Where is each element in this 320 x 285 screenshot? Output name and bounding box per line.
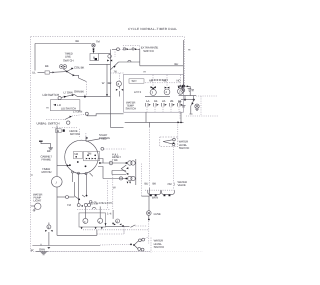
- spin solenoid: [98, 207, 103, 224]
- dashed linkage y209: [77, 207, 110, 209]
- svg-text:CYCLE NORMAL–TIMER DUAL: CYCLE NORMAL–TIMER DUAL: [128, 27, 177, 31]
- motor top diagonal: [86, 137, 107, 142]
- unbalance contact: [85, 112, 123, 116]
- wire lid to riser: [75, 95, 111, 97]
- cabinet frame (dashed): [31, 37, 185, 252]
- dashed drops below leads: [108, 175, 113, 210]
- linkage dashed: [145, 82, 181, 84]
- label EXTRA RINSE SWITCH: [141, 46, 159, 53]
- label TIMER MOTOR: [42, 167, 52, 174]
- pre-row labels: [91, 201, 112, 206]
- label block mid: [112, 152, 121, 162]
- svg-text:LT GRN: LT GRN: [73, 110, 82, 114]
- switch blade outside: [190, 100, 194, 114]
- connector jog: [112, 165, 128, 175]
- contact T2 circle: [108, 54, 112, 59]
- dashed col left: [179, 111, 181, 120]
- pre-row symbols: [77, 203, 90, 206]
- svg-text:GRN: GRN: [39, 248, 45, 252]
- svg-text:T BK: T BK: [112, 158, 118, 162]
- svg-text:W: W: [31, 248, 34, 252]
- left arm arrow: [178, 85, 182, 87]
- svg-text:BU: BU: [175, 62, 179, 66]
- extra rinse switch row: [112, 48, 140, 51]
- diagonal riser with arrow: [111, 62, 119, 70]
- junction dot lid wire: [84, 96, 86, 98]
- svg-text:LIGHT: LIGHT: [34, 199, 42, 203]
- fuse F1: [147, 211, 161, 217]
- junction dot right: [181, 84, 185, 88]
- contact arrows T2: [107, 60, 112, 62]
- svg-text:SWITCH: SWITCH: [143, 49, 154, 53]
- water temp switch box: [124, 74, 184, 112]
- svg-text:3A: 3A: [178, 99, 181, 103]
- dotted line to edge top: [196, 95, 218, 97]
- water valve coil 1: [148, 190, 161, 196]
- svg-text:2 OR 4 CYC: 2 OR 4 CYC: [99, 201, 113, 205]
- label DRIVE MOTOR: [70, 129, 80, 136]
- contact row numbers: [146, 99, 181, 103]
- wire diag to lid area: [79, 78, 87, 96]
- svg-text:BU WDG: BU WDG: [99, 136, 110, 140]
- junction on bus 2: [180, 122, 182, 124]
- svg-text:BK: BK: [47, 149, 51, 153]
- inner label box SCT: [129, 79, 144, 83]
- bottom long wire: [32, 244, 131, 246]
- dashed y234: [97, 230, 124, 234]
- svg-text:SWITCH: SWITCH: [126, 106, 137, 110]
- main bus y122.4: [125, 121, 184, 123]
- node UL power entry: [32, 64, 55, 75]
- label pair right of motor: [99, 133, 110, 140]
- pump circle: [31, 203, 41, 211]
- motor bottom drops: [73, 173, 88, 204]
- wire into box: [110, 72, 123, 74]
- timer wire vertical: [56, 126, 58, 236]
- vertical riser x110.5: [110, 49, 112, 64]
- dotted line above coils: [145, 189, 175, 191]
- arrows under box: [81, 227, 103, 229]
- linkage dark bar: [151, 79, 168, 81]
- lead2 arrows: [127, 182, 131, 184]
- svg-text:VALVE: VALVE: [178, 183, 186, 187]
- extra rinse linkage dashed box: [123, 45, 139, 50]
- brace and label WATER VALVE: [174, 180, 187, 187]
- connector P1 (two circles): [59, 65, 66, 72]
- right arm to outside: [185, 85, 190, 95]
- faint dotted cont: [150, 250, 203, 252]
- unbalance switch blade: [46, 114, 85, 119]
- solenoid K3: [178, 75, 184, 94]
- valve wire labels: [145, 181, 172, 185]
- contact 8b bottom left: [45, 223, 52, 246]
- svg-text:1–4: 1–4: [107, 211, 112, 215]
- junction on bus: [177, 122, 179, 124]
- unbal contact circle: [67, 121, 70, 124]
- bottom level switch cluster: [130, 237, 151, 253]
- solenoid K2: [164, 75, 170, 95]
- svg-text:TK: TK: [114, 69, 118, 73]
- dashed drops to motor: [80, 129, 88, 141]
- breaker diag: [131, 225, 148, 227]
- svg-text:2A: 2A: [162, 99, 165, 103]
- ground circle on frame: [181, 88, 185, 92]
- svg-text:W: W: [102, 81, 105, 85]
- water pump label: [33, 193, 42, 203]
- plug junctions: [181, 96, 195, 101]
- svg-text:LO T2: LO T2: [134, 90, 142, 94]
- svg-text:1B: 1B: [154, 99, 157, 103]
- lamp X outside: [195, 104, 199, 110]
- svg-text:LT GRN: LT GRN: [64, 90, 73, 94]
- wire valve to fuse: [142, 196, 150, 211]
- svg-text:SWITCH: SWITCH: [63, 58, 74, 62]
- svg-text:SCT: SCT: [132, 79, 138, 83]
- wire bottom of cluster: [106, 225, 130, 234]
- lamp L1 on supply: [92, 40, 101, 47]
- motor protector box: [50, 100, 80, 111]
- ground bars mid: [191, 90, 194, 91]
- agitate solenoid: [83, 207, 88, 224]
- outside wire y95.6: [179, 95, 196, 97]
- label WATER TEMP SWITCH: [126, 100, 137, 110]
- svg-text:MOTOR: MOTOR: [70, 132, 80, 136]
- wire lower bus: [89, 63, 111, 65]
- svg-text:B: B: [57, 129, 59, 133]
- svg-text:UNBAL· SWITCH: UNBAL· SWITCH: [37, 121, 60, 125]
- svg-text:1A: 1A: [146, 99, 149, 103]
- fuse lower wire: [148, 215, 150, 243]
- dotted line to edge bottom: [186, 115, 218, 117]
- frame tick: [31, 174, 33, 176]
- motor inner box right: [84, 151, 100, 161]
- svg-text:2B: 2B: [170, 99, 173, 103]
- wire y62: [119, 61, 140, 63]
- lid switch S1: [58, 94, 75, 100]
- ground bars right: [188, 89, 192, 92]
- dotted drop to fuse feed: [141, 164, 143, 197]
- svg-text:SWITCH: SWITCH: [179, 146, 190, 150]
- label WATER LEVEL SWITCH bottom: [154, 239, 165, 249]
- drive motor M1: [65, 140, 99, 174]
- top supply wire: [35, 44, 92, 71]
- temp switch contact row: [146, 103, 183, 107]
- dashed feed drive motor: [52, 127, 77, 129]
- riser x110.4 down: [109, 64, 111, 127]
- timer wire bottom run: [57, 230, 97, 236]
- dotted ground run: [48, 250, 150, 252]
- wire under solenoids: [145, 96, 170, 98]
- arrows at junction: [47, 247, 50, 249]
- terminal box B2: [56, 129, 62, 133]
- right wire down x183.3: [182, 40, 184, 86]
- motor junction dots: [69, 161, 86, 167]
- water valve coil 2: [162, 190, 175, 196]
- connector strip vertical: [135, 159, 137, 185]
- contact arrows under lamp: [92, 48, 95, 54]
- small dashes below row: [114, 52, 116, 58]
- drops from box to bus: [146, 112, 181, 122]
- drop wires from row: [147, 107, 179, 113]
- contact row y197: [57, 195, 85, 200]
- svg-text:LID SWITCH: LID SWITCH: [43, 93, 60, 97]
- switch blade up: [67, 68, 74, 72]
- svg-text:GRN BK: GRN BK: [74, 90, 84, 94]
- riser to extra rinse: [139, 49, 141, 65]
- motor inner box left: [74, 151, 83, 159]
- svg-text:UL: UL: [32, 71, 36, 75]
- label TIMER LINE SWITCH: [63, 52, 74, 63]
- junction J1: [66, 71, 68, 73]
- svg-text:SWITCH: SWITCH: [154, 245, 165, 249]
- dashed col right: [200, 96, 202, 115]
- label CABINET FRAME: [41, 155, 53, 162]
- contact 8a right of box: [105, 210, 122, 225]
- contact 8c: [116, 73, 123, 97]
- svg-text:FRAME: FRAME: [42, 158, 52, 162]
- svg-text:MOTOR: MOTOR: [42, 170, 52, 174]
- wire to junction: [50, 71, 67, 74]
- svg-text:OR: OR: [168, 182, 172, 186]
- svg-text:BR: BR: [108, 81, 112, 85]
- motor left exit wire: [57, 165, 69, 167]
- timer motor TM: [52, 177, 63, 188]
- svg-text:BR N: BR N: [152, 196, 158, 200]
- svg-text:FUSE: FUSE: [154, 212, 161, 216]
- solenoid top labels: [149, 78, 181, 82]
- terminal box B: [90, 54, 99, 61]
- svg-text:BK: BK: [153, 181, 157, 185]
- svg-text:COIL BK: COIL BK: [74, 65, 84, 69]
- solenoid box: [79, 213, 106, 227]
- water level switch assembly: [149, 122, 178, 196]
- ground tab left: [39, 141, 53, 150]
- svg-text:}: }: [174, 182, 175, 186]
- small contacts labels: [67, 201, 97, 208]
- thermal bump SW: [128, 60, 131, 62]
- wire from box B to contact T2: [99, 53, 111, 55]
- switch blade down: [67, 72, 79, 79]
- motor lead 2: [98, 167, 135, 181]
- label WATER LEVEL SWITCH r: [179, 140, 190, 150]
- riser x107: [106, 64, 108, 96]
- motor lead 1: [98, 159, 135, 166]
- svg-text:BU: BU: [145, 181, 149, 185]
- dotted wire y229.7: [83, 229, 148, 231]
- motor bottom terminals: [72, 171, 93, 176]
- solenoid K1: [150, 75, 156, 96]
- wire y127.4 stub: [110, 126, 123, 128]
- ground bottom left: [36, 248, 48, 255]
- contact to dashes right: [101, 147, 126, 150]
- ground bars left: [182, 106, 186, 107]
- svg-text:BK: BK: [76, 39, 80, 43]
- svg-text:BK: BK: [45, 64, 49, 68]
- wire y65.8 to right: [140, 65, 184, 67]
